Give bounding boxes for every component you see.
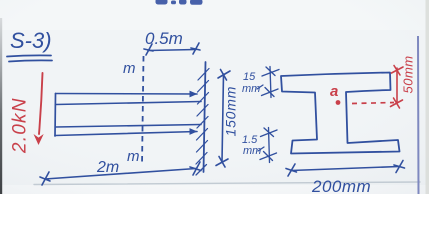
I-beam cross-section outline [281, 73, 400, 154]
svg-text:15: 15 [243, 71, 256, 83]
dimension 50mm line (red) with end ticks [391, 66, 404, 109]
svg-text:150mm: 150mm [223, 86, 239, 137]
dimension 15mm top (flange thickness) ticks [262, 67, 280, 98]
right margin line [417, 36, 420, 194]
cut-off text N.m at top [156, 0, 203, 5]
beam flange line 1 (top) with arrowhead [56, 93, 198, 96]
centroid point a (red dot) [336, 100, 341, 105]
svg-text:m: m [123, 60, 136, 77]
dimension 150mm line with end ticks [216, 70, 230, 168]
svg-text:50mm: 50mm [401, 55, 416, 93]
svg-text:S-3): S-3) [10, 28, 52, 53]
section line m-m (dashed) [142, 56, 144, 166]
svg-text:200mm: 200mm [311, 177, 371, 194]
dimension 0.5m line with end ticks [144, 43, 200, 55]
left page edge [0, 18, 2, 194]
beam flange line 4 (bottom) with arrowhead [55, 132, 197, 136]
dimension 15mm bottom (flange thickness) ticks [260, 128, 277, 163]
dimension 2m line with end ticks [40, 162, 201, 185]
double underline for S-3) [7, 55, 51, 56]
dimension 200mm line with end ticks [286, 161, 405, 177]
fixed support wall [204, 62, 206, 172]
dashed leader line (red) [352, 103, 394, 104]
bottom ruled line [34, 182, 420, 185]
beam side view: left end vertical [54, 94, 57, 137]
svg-text:m: m [127, 148, 140, 165]
svg-text:2m: 2m [96, 159, 119, 176]
svg-text:a: a [330, 83, 338, 100]
wall hatching [196, 69, 209, 176]
right page edge shading [426, 0, 429, 194]
force arrow 2.0kN (red, downward) [39, 73, 43, 134]
beam flange line 2 [56, 102, 202, 105]
beam flange line 3 [56, 125, 202, 128]
svg-text:2.0kN: 2.0kN [10, 97, 31, 154]
